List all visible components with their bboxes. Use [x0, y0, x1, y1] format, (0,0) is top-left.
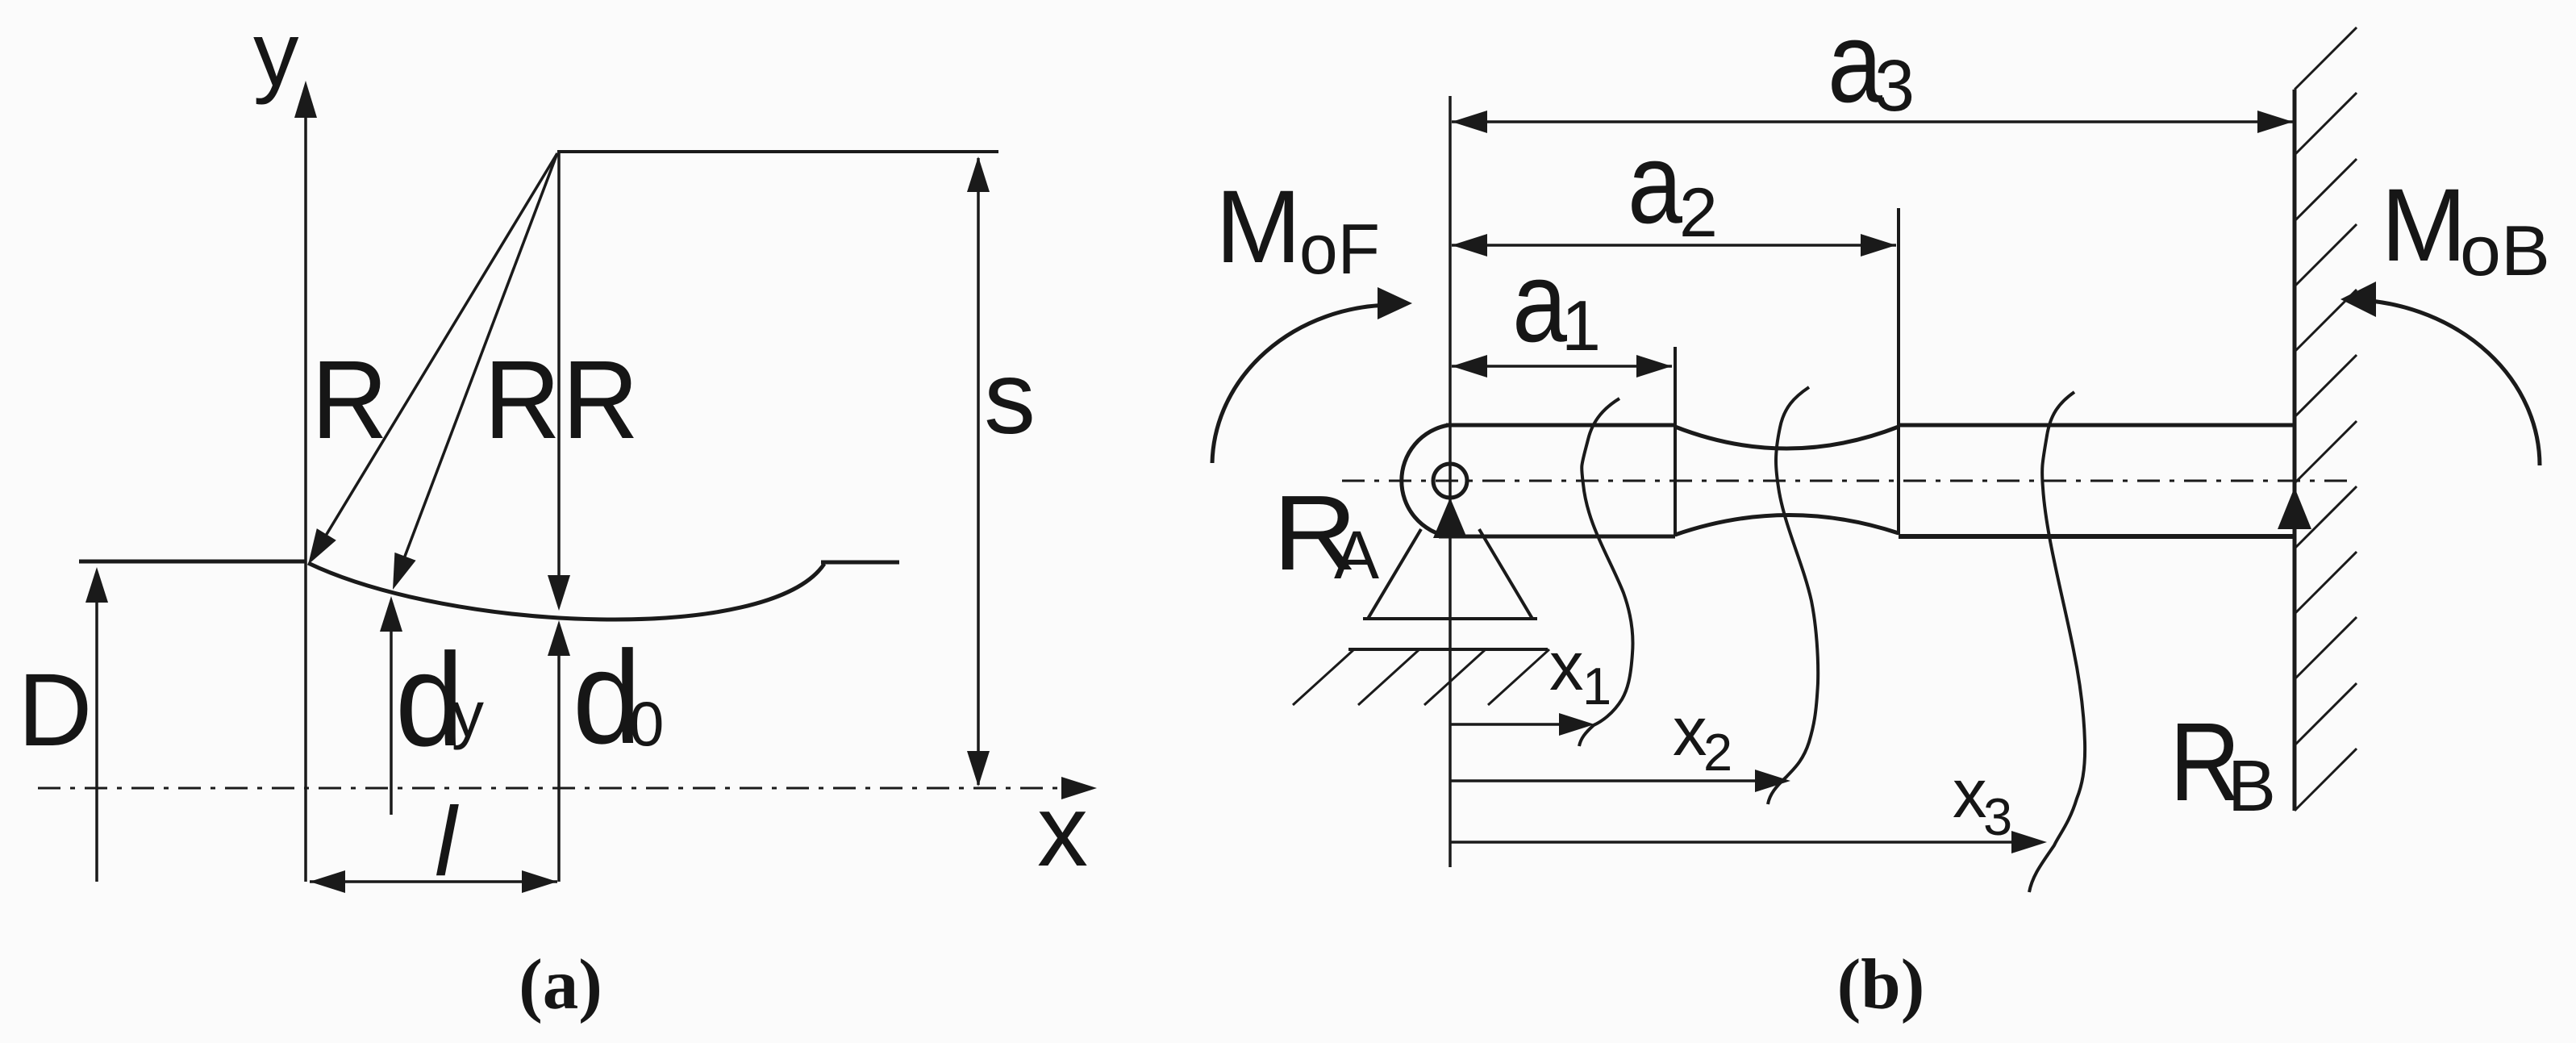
dy dimension line — [390, 632, 393, 815]
wall hatch 7 — [2295, 421, 2357, 483]
x2 dimension line — [1450, 779, 1757, 782]
step2 line (x=a2) — [1897, 208, 1900, 535]
MoF moment arc — [1212, 305, 1391, 463]
svg-text:(b): (b) — [1837, 945, 1925, 1024]
x3 dimension line — [1450, 841, 2013, 844]
svg-text:R: R — [562, 338, 639, 462]
wall hatch 9 — [2295, 552, 2357, 614]
pin circle at A — [1433, 464, 1467, 498]
ground hatch 4 — [1488, 649, 1549, 705]
svg-text:0: 0 — [629, 688, 664, 759]
x-axis arrowhead — [1061, 777, 1097, 799]
wall hatch 1 — [2295, 27, 2357, 90]
D dimension line — [95, 603, 98, 882]
D arrowhead (up) — [85, 567, 108, 603]
a3 arrowhead left — [1452, 111, 1487, 133]
x1 arrowhead — [1559, 713, 1594, 736]
wall hatch 6 — [2295, 355, 2357, 417]
svg-text:a: a — [1512, 238, 1567, 366]
MoB arrowhead — [2340, 282, 2376, 317]
x3 arrowhead — [2011, 831, 2047, 853]
wall hatch 3 — [2295, 159, 2357, 221]
a1 arrowhead left — [1452, 355, 1487, 378]
d0 lower arrowhead (up) — [548, 620, 570, 656]
svg-text:2: 2 — [1679, 174, 1718, 252]
s arrowhead bottom (down) — [967, 751, 990, 786]
shaft section3 bottom edge — [1899, 534, 2295, 539]
MoF arrowhead — [1378, 287, 1412, 319]
a3 arrowhead right — [2257, 111, 2293, 133]
a2 arrowhead right — [1861, 234, 1896, 257]
radius/d0 vertical line upper segment — [557, 152, 561, 575]
support A reference line — [1448, 96, 1452, 867]
svg-text:y: y — [253, 3, 299, 105]
radius arrowhead R1 — [308, 528, 336, 565]
radius arrowhead R2 — [393, 553, 416, 590]
svg-text:y: y — [452, 678, 484, 750]
wall hatch 11 — [2295, 683, 2357, 745]
RB force arrowhead (up along wall) — [2278, 487, 2311, 529]
svg-text:1: 1 — [1582, 657, 1611, 715]
svg-text:3: 3 — [1983, 787, 2012, 846]
ground hatch 3 — [1424, 649, 1486, 705]
ground hatch 1 — [1293, 649, 1354, 705]
svg-text:3: 3 — [1874, 46, 1915, 127]
svg-text:x: x — [1953, 756, 1987, 832]
support triangle left side — [1368, 529, 1421, 619]
shaft section3 top edge — [1899, 423, 2295, 428]
y-axis — [304, 90, 307, 882]
l arrowhead right — [522, 870, 557, 893]
straight tail of groove curve — [821, 561, 899, 565]
l arrowhead left — [310, 870, 345, 893]
left outer-diameter top line — [79, 560, 306, 564]
break wavy line 1 — [1579, 398, 1633, 746]
step1 line (x=a1) — [1674, 347, 1677, 536]
svg-text:(a): (a) — [519, 945, 602, 1024]
MoB moment arc — [2361, 300, 2540, 465]
l dimension line — [310, 880, 557, 883]
wall hatch 2 — [2295, 93, 2357, 155]
a1 arrowhead right — [1636, 355, 1672, 378]
support triangle right side — [1479, 529, 1532, 619]
svg-text:x: x — [1673, 694, 1707, 770]
svg-text:oF: oF — [1299, 209, 1380, 289]
shaft left rounded cap — [1402, 425, 1448, 536]
shaft section1 top edge — [1446, 423, 1675, 428]
radius line R1 — [315, 153, 557, 554]
dy arrowhead (up) — [380, 596, 402, 632]
wall line at B — [2293, 90, 2297, 811]
svg-text:R: R — [311, 338, 388, 462]
wall hatch 10 — [2295, 617, 2357, 679]
a1 dimension line — [1452, 365, 1672, 368]
wall hatch 12 — [2295, 749, 2357, 811]
groove curve (worn surface arc) — [308, 563, 824, 620]
svg-text:A: A — [1334, 517, 1379, 593]
a2 arrowhead left — [1452, 234, 1487, 257]
svg-text:M: M — [2381, 168, 2467, 283]
s arrowhead top (up) — [967, 156, 990, 192]
wall hatch 8 — [2295, 486, 2357, 549]
svg-text:l: l — [435, 786, 459, 896]
d0 upper arrowhead (down) — [548, 575, 570, 611]
s dimension line — [977, 158, 980, 785]
svg-text:B: B — [2228, 746, 2276, 827]
ground line — [1348, 648, 1548, 651]
svg-text:s: s — [984, 340, 1036, 456]
ground hatch 2 — [1358, 649, 1419, 705]
wall hatch 4 — [2295, 224, 2357, 286]
a2 dimension line — [1452, 244, 1896, 247]
shaft section1 bottom edge — [1439, 535, 1675, 539]
a3 dimension line — [1452, 120, 2293, 123]
radius line R2 — [397, 153, 557, 578]
y-axis arrowhead — [294, 81, 317, 118]
svg-text:oB: oB — [2460, 211, 2550, 290]
shaft centerline (b) — [1342, 480, 2353, 482]
wall hatch 5 — [2295, 290, 2357, 352]
RA force arrowhead — [1433, 498, 1467, 538]
svg-text:R: R — [484, 338, 561, 462]
x-axis centerline (a) — [38, 787, 1087, 790]
support triangle base — [1363, 617, 1537, 620]
svg-text:x: x — [1549, 628, 1584, 705]
svg-text:x: x — [1037, 774, 1088, 887]
svg-text:D: D — [18, 653, 92, 768]
neck bottom contour — [1675, 515, 1899, 535]
d0 vertical line lower segment — [557, 656, 561, 882]
neck top contour — [1675, 427, 1899, 448]
svg-text:a: a — [1628, 119, 1682, 248]
x2 arrowhead — [1755, 770, 1790, 792]
svg-text:1: 1 — [1561, 286, 1601, 365]
x1 dimension line — [1450, 723, 1561, 726]
svg-text:M: M — [1215, 169, 1302, 285]
break wavy line 2 — [1768, 387, 1818, 804]
top straight line (undeformed surface) — [557, 150, 998, 153]
svg-text:2: 2 — [1703, 723, 1732, 782]
break wavy line 3 — [2029, 392, 2085, 892]
